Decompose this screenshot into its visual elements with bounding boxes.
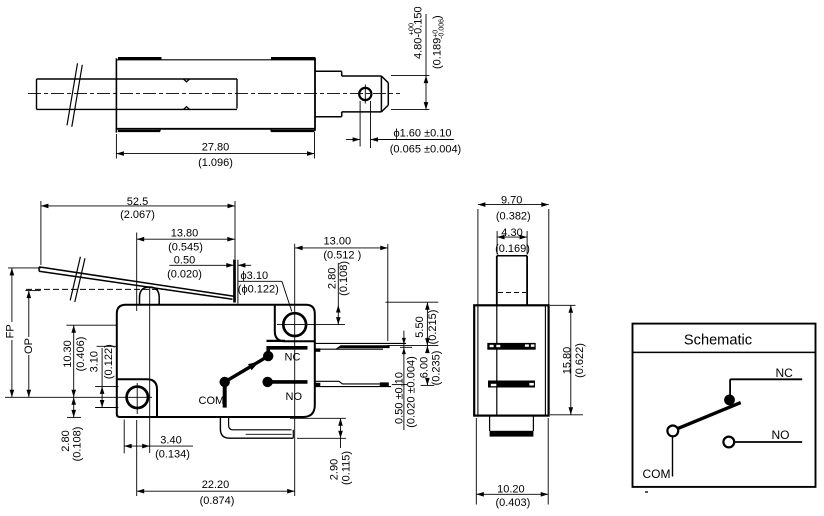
svg-text:(0.065 ±0.004): (0.065 ±0.004)	[390, 144, 461, 156]
internal vertical reference line	[149, 287, 151, 453]
top view plunger tip	[342, 76, 389, 112]
dimension 52.5 (2.067)	[41, 196, 235, 265]
side view terminal slot 1	[487, 343, 535, 350]
dimension OP	[23, 291, 41, 398]
svg-text:FP: FP	[5, 324, 17, 338]
plunger hole centerline	[364, 85, 366, 104]
dimension 2.80 (0.108) top right	[327, 261, 351, 325]
NO contact	[262, 377, 307, 387]
dimension 3.10 (0.122)	[89, 344, 119, 407]
NC terminal blade	[315, 343, 406, 351]
plunger hole	[359, 88, 371, 100]
svg-text:(1.096): (1.096)	[198, 157, 233, 169]
svg-text:13.80: 13.80	[171, 228, 199, 240]
svg-text:(0.874): (0.874)	[200, 495, 235, 507]
svg-text:(0.169): (0.169)	[495, 243, 530, 255]
svg-text:NC: NC	[285, 352, 301, 364]
lever end tab	[233, 260, 236, 303]
top-right mounting boss	[275, 305, 315, 342]
top-right mounting hole	[283, 313, 306, 336]
dimension 4.80 tolerance (vertical)	[391, 6, 446, 109]
dimension 27.80 (1.096)	[116, 132, 314, 169]
svg-text:(0.134): (0.134)	[155, 449, 190, 461]
svg-text:(ϕ0.122): (ϕ0.122)	[238, 283, 279, 295]
dimension 13.80 (0.545)	[137, 228, 235, 311]
dimension 15.80 (0.622)	[550, 305, 586, 415]
bottom-left mounting hole	[127, 387, 148, 408]
hole centerlines / FP OP reference	[5, 396, 152, 398]
extension line left	[97, 345, 117, 347]
dimension phi 1.60 +/-0.10	[346, 101, 461, 156]
wire COM	[672, 436, 674, 476]
common contact COM	[220, 377, 230, 408]
top view switch body	[116, 58, 315, 133]
svg-text:(0.235): (0.235)	[431, 351, 443, 386]
side view bottom terminal	[490, 416, 534, 437]
svg-text:ϕ1.60 ±0.10: ϕ1.60 ±0.10	[393, 127, 451, 139]
svg-text:(0.020 ±0.004): (0.020 ±0.004)	[406, 356, 418, 427]
svg-text:(0.108): (0.108)	[72, 427, 84, 462]
contact NO (open circle)	[723, 437, 734, 448]
svg-text:(0.020): (0.020)	[167, 269, 202, 281]
svg-text:(0.545): (0.545)	[168, 241, 203, 253]
shaft notch marks	[184, 79, 190, 109]
svg-text:+00: +00	[407, 23, 416, 36]
dimension 0.50 (0.020)	[167, 255, 251, 281]
side view terminal slot 2	[488, 381, 535, 388]
wire NC	[730, 379, 802, 396]
svg-text:OP: OP	[23, 338, 35, 354]
svg-text:6.00: 6.00	[419, 357, 431, 378]
bottom-left mounting boss	[117, 379, 157, 417]
leader phi 3.10 to mounting hole	[238, 270, 292, 311]
dimension 3.40 (0.134)	[124, 420, 193, 461]
dimension 6.00 (0.235)	[419, 346, 443, 386]
svg-text:Schematic: Schematic	[684, 333, 752, 349]
svg-text:22.20: 22.20	[202, 479, 230, 491]
svg-text:NO: NO	[286, 391, 303, 403]
svg-text:3.40: 3.40	[160, 435, 181, 447]
top view mid boss	[315, 71, 342, 116]
svg-text:3.10: 3.10	[89, 351, 101, 372]
dimension 2.90 (0.115)	[290, 418, 353, 485]
svg-text:NC: NC	[776, 366, 794, 380]
svg-text:2.90: 2.90	[329, 459, 341, 480]
NC contact	[263, 348, 308, 362]
COM terminal bent	[220, 417, 293, 438]
side view body	[474, 305, 548, 415]
contact NC (closed, filled)	[724, 395, 735, 406]
dimension 22.20 (0.874)	[137, 420, 295, 507]
dimension 2.80 (0.108) bottom left	[60, 397, 84, 461]
dimension 10.30 (0.406)	[62, 325, 117, 417]
hole centerlines	[277, 324, 345, 326]
svg-text:13.00: 13.00	[324, 236, 352, 248]
dimension 4.30 (0.169)	[495, 227, 530, 255]
svg-text:(2.067): (2.067)	[120, 209, 155, 221]
svg-text:(0.406): (0.406)	[75, 337, 87, 372]
svg-text:(0.512 ): (0.512 )	[323, 249, 361, 261]
side view plunger	[497, 256, 527, 305]
svg-text:0.50 ±0.10: 0.50 ±0.10	[394, 372, 406, 424]
svg-text:(0.122): (0.122)	[103, 344, 115, 379]
svg-text:(0.622): (0.622)	[574, 343, 586, 378]
svg-text:9.70: 9.70	[501, 195, 522, 207]
svg-text:10.20: 10.20	[497, 484, 525, 496]
dimension 5.50 (0.215)	[385, 302, 439, 351]
svg-text:0.50: 0.50	[174, 255, 195, 267]
top view centerline	[28, 92, 400, 94]
dimension 13.00 (0.512)	[295, 236, 388, 341]
svg-text:(0.403): (0.403)	[495, 497, 530, 509]
svg-text:2.80: 2.80	[60, 430, 72, 451]
NO terminal blade	[315, 381, 407, 386]
dimension 0.50 +/-0.10 blade thickness	[394, 331, 418, 430]
schematic title separator	[632, 351, 816, 353]
svg-text:2.80: 2.80	[327, 268, 339, 289]
lever arm	[39, 267, 234, 299]
svg-text:10.30: 10.30	[62, 340, 74, 368]
wire NO	[734, 441, 802, 443]
svg-text:NO: NO	[772, 428, 790, 442]
stray mark	[645, 491, 648, 493]
dimension 10.20 (0.403)	[476, 418, 548, 509]
svg-text:COM: COM	[643, 467, 671, 481]
plunger dome on body	[140, 287, 160, 305]
switch body outline	[117, 305, 315, 417]
svg-text:15.80: 15.80	[561, 347, 573, 375]
lever break lines	[70, 257, 85, 302]
svg-text:(0.215): (0.215)	[427, 310, 439, 345]
shaft break lines	[67, 63, 82, 127]
svg-text:5.50: 5.50	[414, 316, 426, 337]
lever free-position dashed line	[26, 288, 168, 290]
svg-text:ϕ3.10: ϕ3.10	[241, 270, 269, 282]
svg-text:52.5: 52.5	[127, 196, 148, 208]
movable contact arm with arrow	[225, 356, 269, 382]
schematic box	[633, 324, 816, 487]
movable arm COM-NC	[677, 403, 741, 429]
dimension 9.70 (0.382)	[478, 195, 549, 305]
dimension FP	[5, 268, 41, 397]
svg-text:27.80: 27.80	[202, 141, 230, 153]
body tab	[237, 260, 239, 304]
top view shaft	[37, 79, 238, 109]
svg-text:COM: COM	[199, 395, 225, 407]
svg-text:(0.382): (0.382)	[496, 211, 531, 223]
svg-text:(0.115): (0.115)	[341, 451, 353, 485]
svg-text:4.30: 4.30	[501, 227, 522, 239]
svg-text:(0.108): (0.108)	[338, 261, 350, 296]
contact COM (open circle)	[667, 426, 678, 437]
